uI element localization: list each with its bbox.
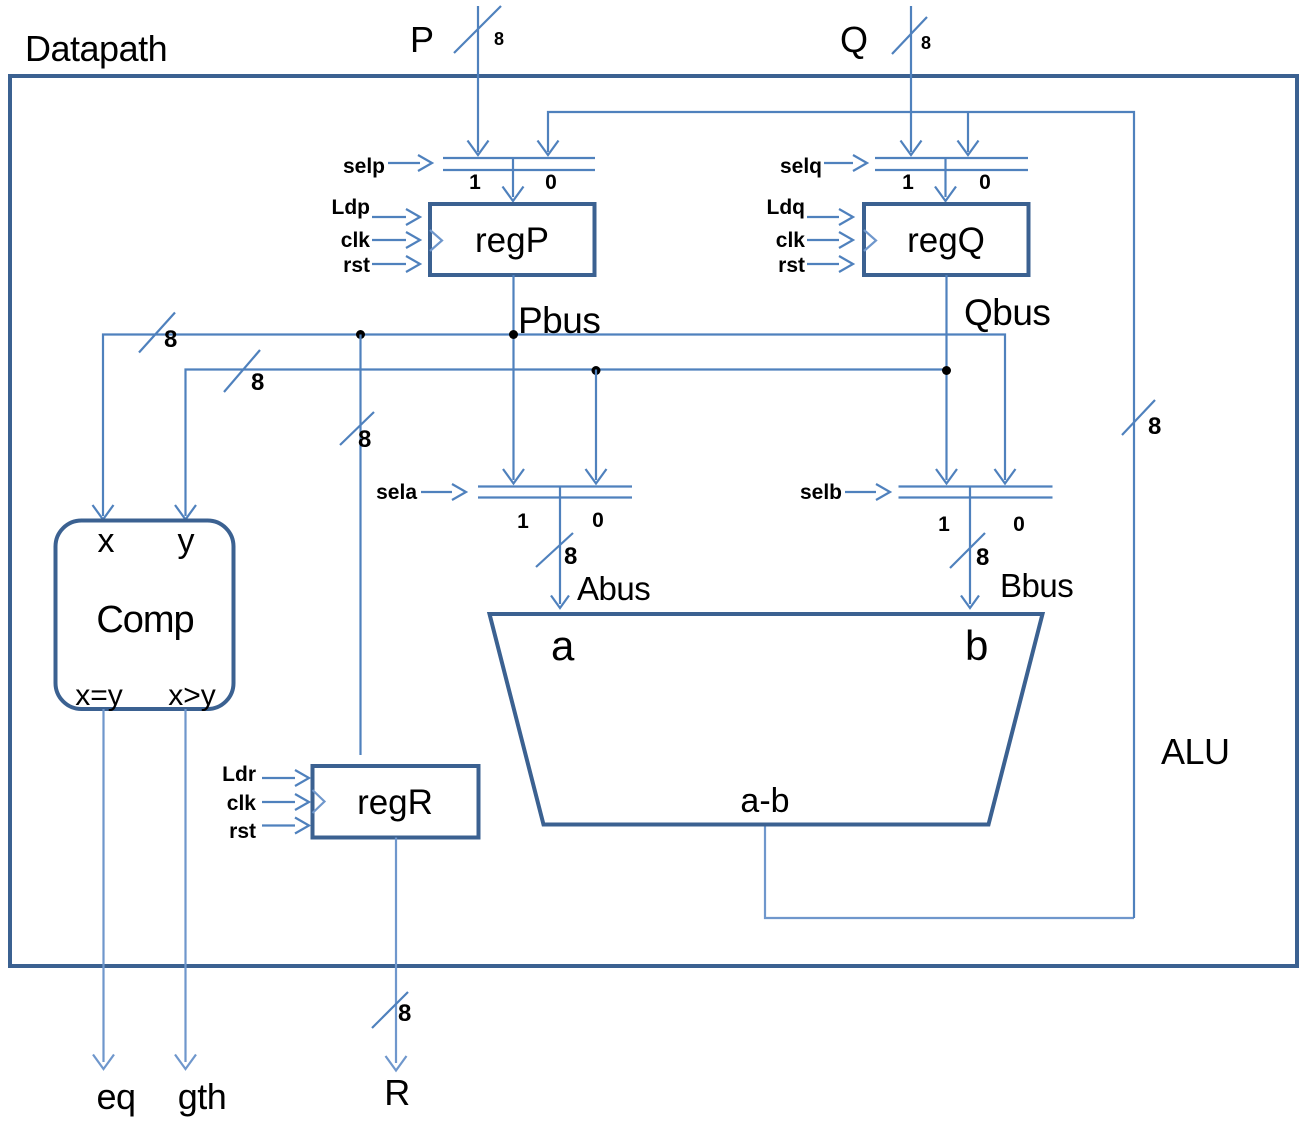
register regP (430, 204, 595, 275)
svg-text:rst: rst (778, 254, 805, 277)
svg-text:1: 1 (517, 510, 529, 533)
arrowhead bus1 into Comp x (93, 505, 114, 520)
wire Ldq (807, 216, 839, 218)
svg-text:x: x (98, 522, 115, 560)
svg-text:clk: clk (341, 229, 371, 252)
clock chevron regP (430, 230, 442, 251)
clock chevron regR (313, 790, 325, 813)
slash bus-width Q (892, 17, 927, 54)
arrowhead Qbus into mux selb (936, 469, 957, 484)
svg-text:8: 8 (251, 369, 264, 396)
svg-text:0: 0 (1013, 513, 1025, 536)
svg-text:selp: selp (343, 155, 385, 178)
datapath boundary frame (10, 76, 1297, 966)
svg-text:Q: Q (840, 19, 868, 60)
arrowhead eq (93, 1055, 114, 1070)
svg-text:0: 0 (545, 171, 557, 194)
wire rst regR (262, 824, 295, 826)
svg-text:clk: clk (776, 229, 806, 252)
svg-text:y: y (178, 522, 195, 560)
wire rst regQ (807, 263, 839, 265)
svg-text:P: P (410, 19, 434, 60)
arrowhead gth (175, 1055, 196, 1070)
svg-text:8: 8 (921, 33, 931, 53)
arrowhead clk regQ (839, 232, 853, 248)
wire bus2 Qbus horizontal distribution (186, 370, 947, 517)
wire feedback from ALU output to muxes (765, 824, 1134, 918)
svg-text:1: 1 (938, 513, 950, 536)
arrowhead Ldq (839, 209, 853, 225)
arrowhead bus1 into mux selb input 0 (995, 469, 1016, 484)
svg-text:a-b: a-b (740, 782, 789, 820)
ALU trapezoid (490, 614, 1043, 825)
svg-text:Datapath: Datapath (25, 28, 167, 69)
svg-text:eq: eq (96, 1076, 135, 1117)
junction dot bus2 Qbus (942, 366, 951, 375)
wire Q input (910, 6, 912, 152)
svg-text:8: 8 (358, 426, 371, 453)
svg-text:R: R (384, 1072, 410, 1113)
svg-text:rst: rst (343, 254, 370, 277)
slash bus-width regR input (340, 412, 374, 445)
junction dot bus1 to regR (356, 330, 365, 339)
arrowhead into regQ (935, 187, 956, 202)
svg-text:Ldr: Ldr (222, 763, 256, 786)
arrowhead rst regR (295, 818, 309, 834)
wire Comp output eq (102, 709, 104, 1062)
arrowhead bus2 into Comp y (175, 505, 196, 520)
svg-text:regP: regP (475, 221, 549, 260)
wire Bbus mux selb output to ALU (969, 487, 971, 605)
wire bus1 Pbus horizontal distribution (103, 335, 1005, 517)
svg-text:Ldp: Ldp (332, 196, 370, 219)
svg-text:rst: rst (229, 820, 256, 843)
svg-text:8: 8 (976, 544, 989, 571)
svg-text:regQ: regQ (907, 221, 985, 260)
arrowhead into regP (503, 187, 524, 202)
mux selp (2:1) (443, 158, 595, 170)
svg-text:Comp: Comp (96, 599, 193, 641)
register regQ (864, 204, 1029, 275)
svg-text:Abus: Abus (577, 570, 650, 607)
svg-text:clk: clk (227, 792, 257, 815)
arrowhead selp (418, 155, 432, 171)
svg-text:ALU: ALU (1161, 731, 1230, 772)
wire selq select input (824, 162, 853, 164)
arrowhead R (386, 1056, 407, 1071)
svg-text:selb: selb (800, 481, 842, 504)
svg-text:Ldq: Ldq (767, 196, 805, 219)
arrowhead Pbus into mux sela (503, 469, 524, 484)
slash bus-width bus2 (224, 350, 260, 392)
junction dot bus2 to sela input 0 (592, 366, 601, 375)
mux selb (2:1) (899, 487, 1053, 498)
arrowhead rst regP (406, 256, 420, 272)
arrowhead Q into mux selq (901, 141, 922, 156)
svg-text:1: 1 (902, 171, 914, 194)
mux sela (2:1) (478, 487, 632, 498)
slash bus-width Bbus (950, 533, 985, 568)
svg-text:8: 8 (398, 1000, 411, 1027)
arrowhead P into mux selp (468, 141, 489, 156)
svg-text:8: 8 (494, 29, 504, 49)
mux selq (2:1) (875, 158, 1028, 170)
svg-text:selq: selq (780, 155, 822, 178)
slash bus-width feedback (1122, 400, 1155, 435)
svg-text:Bbus: Bbus (1000, 567, 1073, 604)
slash bus-width Abus (536, 533, 573, 567)
wire sela select input (421, 491, 452, 493)
wire feedback branch to mux selq (967, 112, 969, 152)
slash bus-width P (454, 6, 501, 53)
wire rst regP (372, 263, 406, 265)
wire Comp output gth (184, 709, 186, 1062)
wire mux selp output to regP (512, 158, 514, 197)
svg-text:0: 0 (979, 171, 991, 194)
svg-text:a: a (551, 622, 575, 669)
register regR (313, 766, 479, 838)
arrowhead clk regP (406, 232, 420, 248)
wire P input (477, 6, 479, 152)
svg-text:x=y: x=y (75, 679, 123, 712)
arrowhead Ldp (406, 209, 420, 225)
arrowhead clk regR (295, 794, 309, 810)
svg-text:regR: regR (357, 783, 433, 822)
wire regP output Pbus down to mux sela (512, 275, 514, 480)
svg-text:8: 8 (564, 543, 577, 570)
svg-text:b: b (965, 622, 988, 669)
svg-text:8: 8 (164, 326, 177, 353)
slash bus-width R (372, 992, 408, 1028)
svg-text:0: 0 (592, 509, 604, 532)
wire clk regQ (807, 239, 839, 241)
arrowhead Abus into ALU (551, 596, 569, 609)
wire regR output R (395, 838, 397, 1064)
wire selp select input (388, 162, 420, 164)
arrowhead feedback into mux selq (958, 141, 979, 156)
svg-text:x>y: x>y (168, 679, 216, 712)
wire clk regR (262, 801, 295, 803)
arrowhead Bbus into ALU (961, 596, 979, 609)
clock chevron regQ (864, 230, 876, 251)
svg-text:8: 8 (1148, 413, 1161, 440)
wire selb select input (845, 491, 876, 493)
arrowhead rst regQ (839, 256, 853, 272)
slash bus-width bus1 (139, 313, 175, 353)
wire Ldp (372, 216, 406, 218)
wire regQ output Qbus down to mux selb (945, 275, 947, 480)
arrowhead sela (452, 484, 466, 500)
svg-text:1: 1 (469, 171, 481, 194)
wire bus2 branch to mux sela input 0 (595, 370, 597, 481)
svg-text:Qbus: Qbus (964, 292, 1050, 333)
junction dot bus1 to sela (509, 330, 518, 339)
wire bus1 branch to regR input (359, 335, 361, 756)
svg-text:gth: gth (178, 1076, 227, 1117)
comparator Comp (56, 521, 234, 710)
arrowhead into mux sela input 0 (586, 469, 607, 484)
wire clk regP (372, 239, 406, 241)
arrowhead feedback into mux selp (538, 141, 559, 156)
svg-text:sela: sela (376, 481, 417, 504)
wire mux selq output to regQ (944, 158, 946, 197)
arrowhead selb (876, 484, 890, 500)
wire Abus mux sela output to ALU (559, 487, 561, 605)
wire Ldr (262, 777, 295, 779)
arrowhead Ldr (295, 770, 309, 786)
arrowhead selq (853, 155, 867, 171)
